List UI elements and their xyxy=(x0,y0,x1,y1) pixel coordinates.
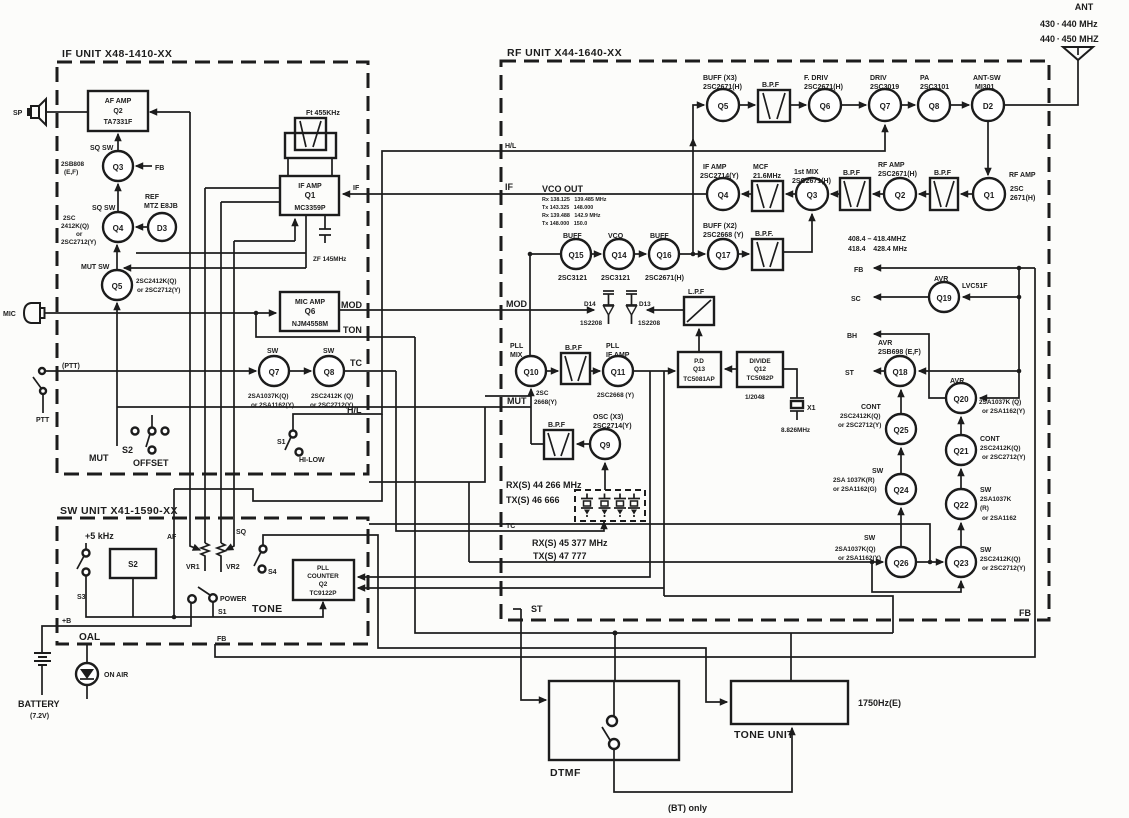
svg-text:2SC: 2SC xyxy=(1010,186,1024,193)
svg-text:OAL: OAL xyxy=(79,632,100,643)
mcf MCF 21.6MHz xyxy=(752,164,783,211)
wire DTMF top feed xyxy=(614,633,616,681)
svg-text:TX(S) 46 666: TX(S) 46 666 xyxy=(506,495,560,505)
svg-text:Q13: Q13 xyxy=(693,366,706,373)
svg-text:BH: BH xyxy=(847,333,857,340)
wire Q5 to Q4 xyxy=(116,245,118,270)
svg-text:SQ SW: SQ SW xyxy=(90,145,114,152)
wire crystal bank to Q9 xyxy=(604,463,606,490)
svg-text:2SB698 (E,F): 2SB698 (E,F) xyxy=(878,349,921,356)
svg-text:PA: PA xyxy=(920,75,929,82)
wire FB into Q3 xyxy=(136,165,164,172)
svg-text:NJM4558M: NJM4558M xyxy=(292,321,328,328)
svg-text:IF AMP: IF AMP xyxy=(703,164,727,171)
bpf B.P.F rx2 xyxy=(840,170,870,210)
sw Q22 xyxy=(946,487,1017,522)
transistor Q3 rf (1st MIX) xyxy=(792,169,831,210)
wire tone unit top riser xyxy=(790,633,792,681)
svg-text:1st MIX: 1st MIX xyxy=(794,169,819,176)
transistor Q8 (SW) xyxy=(310,348,353,409)
wire S3 to rail xyxy=(86,576,131,617)
wire feed rail into Q26 xyxy=(469,561,883,563)
svg-text:Q8: Q8 xyxy=(324,368,335,377)
capacitor quad coil ZF 145MHz xyxy=(313,215,346,263)
IF amp IC Q1 MC3359P box xyxy=(280,176,339,215)
cont Q25 xyxy=(838,404,916,444)
svg-text:2SC3101: 2SC3101 xyxy=(920,84,949,91)
svg-text:Q17: Q17 xyxy=(715,251,731,260)
svg-text:BUFF: BUFF xyxy=(650,233,669,240)
svg-text:P.D: P.D xyxy=(694,358,704,365)
box S2 xyxy=(110,549,156,578)
svg-text:Q5: Q5 xyxy=(112,282,123,291)
svg-text:Q21: Q21 xyxy=(953,447,969,456)
svg-text:TC5082P: TC5082P xyxy=(747,375,775,382)
transistor Q5 (MUT SW) xyxy=(81,264,180,300)
svg-text:Q2: Q2 xyxy=(895,191,906,200)
svg-text:PLL: PLL xyxy=(317,565,329,572)
wire Q15 to Q14 xyxy=(591,253,601,255)
wire Q1 bottom pin via v4 xyxy=(234,240,295,242)
svg-text:Q20: Q20 xyxy=(953,395,969,404)
wire feed rail upper to Q26-Q23 node xyxy=(369,524,930,562)
wire FB bus down to SW unit xyxy=(215,268,1035,657)
wire AF line xyxy=(173,489,175,617)
svg-text:(PTT): (PTT) xyxy=(62,363,80,370)
wire Q23 to Q22 xyxy=(960,523,962,547)
svg-text:Q2: Q2 xyxy=(113,108,122,115)
svg-text:Q3: Q3 xyxy=(113,163,124,172)
svg-text:S1: S1 xyxy=(218,609,227,616)
tone unit box xyxy=(731,681,848,741)
wire TC rail to crystal bank xyxy=(396,371,604,531)
svg-text:2SA1037K: 2SA1037K xyxy=(980,496,1012,503)
svg-text:TONE: TONE xyxy=(252,603,283,615)
svg-text:2SA 1037K(R): 2SA 1037K(R) xyxy=(833,477,875,484)
wire MCF to Q4 xyxy=(742,193,752,195)
svg-text:SW: SW xyxy=(267,348,279,355)
transistor Q14 (VCO) xyxy=(601,233,634,282)
wire +B battery to power switch xyxy=(42,603,191,653)
MIC AMP Q6 box xyxy=(280,292,339,331)
svg-text:ZF 145MHz: ZF 145MHz xyxy=(313,256,346,263)
svg-text:RX(S) 45 377 MHz: RX(S) 45 377 MHz xyxy=(532,538,608,548)
transistor Q9 (OSC X3) xyxy=(590,414,632,459)
svg-text:VR2: VR2 xyxy=(226,564,240,571)
wire IF rail Q4 to IF unit xyxy=(369,193,707,195)
transistor Q11 (PLL IF AMP) xyxy=(597,343,634,399)
wire PLL counter line 2 xyxy=(358,371,664,596)
wire power switch to rail xyxy=(212,602,214,617)
svg-text:Q24: Q24 xyxy=(893,486,909,495)
svg-text:Tx 148.000 150.0: Tx 148.000 150.0 xyxy=(542,221,587,227)
svg-text:BUFF (X2): BUFF (X2) xyxy=(703,223,737,230)
svg-text:L.P.F: L.P.F xyxy=(688,289,705,296)
svg-text:SW: SW xyxy=(323,348,335,355)
switch S1 HI-LOW xyxy=(277,431,325,465)
wire Q1 quad det rail xyxy=(136,252,306,254)
label ST xyxy=(513,604,543,614)
transistor Q2 rf (RF AMP) xyxy=(878,162,917,210)
svg-text:FB: FB xyxy=(217,636,226,643)
svg-text:(BT) only: (BT) only xyxy=(668,803,707,813)
svg-text:2SC2714(Y): 2SC2714(Y) xyxy=(700,173,739,180)
svg-text:ST: ST xyxy=(845,370,855,377)
transistor Q15 (BUFF) xyxy=(558,233,591,282)
svg-text:Q9: Q9 xyxy=(600,441,611,450)
svg-text:2671(H): 2671(H) xyxy=(1010,195,1035,202)
svg-text:VCO: VCO xyxy=(608,233,624,240)
wire AF input from volume line xyxy=(150,111,190,113)
svg-text:LVC51F: LVC51F xyxy=(962,283,988,290)
svg-text:OFFSET: OFFSET xyxy=(133,458,169,468)
svg-text:S3: S3 xyxy=(77,594,86,601)
wire volume wiper from AF AMP xyxy=(190,112,200,550)
svg-text:Q4: Q4 xyxy=(113,224,124,233)
svg-text:or 2SC2712(Y): or 2SC2712(Y) xyxy=(982,565,1025,572)
wire Q18 ST out xyxy=(845,370,885,377)
svg-text:H/L: H/L xyxy=(505,143,517,150)
wire Q25 to Q18 xyxy=(900,390,902,414)
pll counter Q2 TC9122P box xyxy=(293,560,354,600)
wire Q22 to Q21 xyxy=(960,469,962,489)
svg-text:D2: D2 xyxy=(983,102,994,111)
svg-text:DIVIDE: DIVIDE xyxy=(749,358,771,365)
wire Q10 bottom to bpf osc xyxy=(531,389,544,444)
svg-text:2SC: 2SC xyxy=(536,390,549,397)
svg-text:2SC: 2SC xyxy=(63,215,76,222)
wire Q14 to Q16 xyxy=(635,253,646,255)
svg-text:or 2SA1162(G): or 2SA1162(G) xyxy=(833,486,877,493)
wire Q7 to Q8 xyxy=(289,370,311,372)
diode D14 1S2208 xyxy=(580,291,614,327)
svg-text:AVR: AVR xyxy=(934,276,948,283)
svg-text:IF: IF xyxy=(505,182,514,192)
svg-text:Q7: Q7 xyxy=(269,368,280,377)
svg-text:2SC2412K (Q): 2SC2412K (Q) xyxy=(311,393,353,400)
wire Q3 to MCF xyxy=(786,193,796,195)
wire LPF to D13 xyxy=(647,309,684,311)
svg-text:F. DRIV: F. DRIV xyxy=(804,75,828,82)
svg-text:1/2048: 1/2048 xyxy=(745,394,765,401)
svg-text:OSC (X3): OSC (X3) xyxy=(593,414,623,421)
transistor Q3 (SQ SW 2SB808) xyxy=(61,145,133,181)
battery BATTERY 7.2V xyxy=(18,653,60,720)
wire Q15 to PLL mix Q10 xyxy=(530,253,561,255)
svg-text:440 · 450 MHZ: 440 · 450 MHZ xyxy=(1040,34,1099,44)
svg-text:2SC2671(H): 2SC2671(H) xyxy=(878,171,917,178)
svg-text:S1: S1 xyxy=(277,439,286,446)
transistor Q4 rf (IF AMP) xyxy=(700,164,739,210)
sw Q23 xyxy=(946,547,1025,577)
svg-text:MOD: MOD xyxy=(506,299,527,309)
wire Q6 to Q7 xyxy=(841,104,866,106)
svg-text:2SC2412K(Q): 2SC2412K(Q) xyxy=(840,413,881,420)
svg-text:B.P.F: B.P.F xyxy=(548,422,566,429)
wire Q4 to Q3 xyxy=(117,184,119,212)
svg-text:SW: SW xyxy=(980,487,992,494)
svg-text:S2: S2 xyxy=(128,560,138,569)
wire H/L from S1 up and to RF driver xyxy=(293,125,885,430)
label vco frequency range xyxy=(848,236,908,253)
wire MIC to MIC AMP xyxy=(44,312,276,314)
svg-text:1750Hz(E): 1750Hz(E) xyxy=(858,698,901,708)
label RX TX channel B xyxy=(532,538,608,561)
svg-text:DRIV: DRIV xyxy=(870,75,887,82)
svg-text:Q6: Q6 xyxy=(305,307,316,316)
svg-text:or: or xyxy=(76,231,83,238)
svg-text:Q1: Q1 xyxy=(984,191,995,200)
svg-text:Tx 143.325 148.000: Tx 143.325 148.000 xyxy=(542,205,593,211)
wire bpf to Q6 xyxy=(790,104,806,106)
svg-text:2SC2714(Y): 2SC2714(Y) xyxy=(593,423,632,430)
svg-text:2SC3121: 2SC3121 xyxy=(558,275,587,282)
wire Q26 to Q23 xyxy=(916,561,943,563)
wire S4 to tone unit feed xyxy=(263,535,727,702)
antenna ANT xyxy=(1040,2,1099,60)
wire Q1 discriminator down xyxy=(305,215,307,268)
crystal bank dashed box xyxy=(575,490,645,521)
svg-text:Q11: Q11 xyxy=(611,368,626,377)
svg-text:21.6MHz: 21.6MHz xyxy=(753,173,782,180)
svg-text:VR1: VR1 xyxy=(186,564,200,571)
label RX TX channel A xyxy=(506,480,582,505)
svg-text:MCF: MCF xyxy=(753,164,769,171)
svg-text:2SA1037K(Q): 2SA1037K(Q) xyxy=(248,393,289,400)
switch S1 POWER xyxy=(188,587,246,616)
svg-text:or 2SC2712(Y): or 2SC2712(Y) xyxy=(838,422,881,429)
svg-text:MTZ E8JB: MTZ E8JB xyxy=(144,203,178,210)
bpf B.P.F tx1 xyxy=(758,82,790,122)
svg-text:2SC2671(H): 2SC2671(H) xyxy=(792,178,831,185)
svg-text:Q19: Q19 xyxy=(936,294,952,303)
wire DTMF bottom loop to tone unit xyxy=(614,728,792,792)
svg-text:AF: AF xyxy=(167,534,177,541)
bpf B.P.F pll xyxy=(561,345,590,384)
svg-text:MC3359P: MC3359P xyxy=(294,205,325,212)
transistor Q6 rf (F. DRIV) xyxy=(804,75,843,121)
wire Q3 to AF AMP xyxy=(117,134,119,151)
svg-text:ANT-SW: ANT-SW xyxy=(973,75,1001,82)
svg-text:2SC2671(H): 2SC2671(H) xyxy=(645,275,684,282)
svg-text:2SB808: 2SB808 xyxy=(61,161,85,168)
crystal X1 8.826MHz xyxy=(781,369,816,434)
svg-text:2SA1037K (Q): 2SA1037K (Q) xyxy=(979,399,1021,406)
svg-text:2412K(Q): 2412K(Q) xyxy=(61,223,89,230)
wire squelch wiper from Q1 xyxy=(226,241,234,550)
wire TON from mic node to tone rail xyxy=(256,313,415,337)
wire mut branch xyxy=(369,396,531,482)
wire PLL counter line 1 xyxy=(358,371,650,577)
svg-text:S2: S2 xyxy=(122,445,133,455)
wire IF input into Q1 xyxy=(343,185,369,194)
svg-text:TA7331F: TA7331F xyxy=(104,119,133,126)
svg-text:Q3: Q3 xyxy=(807,191,818,200)
svg-text:Q18: Q18 xyxy=(892,368,908,377)
svg-text:TC9122P: TC9122P xyxy=(310,590,338,597)
wire squelch path Q10 top xyxy=(529,253,531,356)
svg-text:Q23: Q23 xyxy=(953,559,969,568)
sw Q26 xyxy=(835,535,916,577)
svg-text:PTT: PTT xyxy=(36,417,50,424)
svg-text:or 2SA1162(Y): or 2SA1162(Y) xyxy=(982,408,1025,415)
svg-text:D14: D14 xyxy=(584,301,596,308)
svg-text:IF UNIT X48-1410-XX: IF UNIT X48-1410-XX xyxy=(62,48,172,60)
switch S2 OFFSET xyxy=(122,415,169,468)
svg-text:REF: REF xyxy=(145,194,160,201)
svg-text:BUFF (X3): BUFF (X3) xyxy=(703,75,737,82)
wire FB arrow out xyxy=(854,266,1035,274)
transistor Q8 rf (PA) xyxy=(918,75,950,121)
wire bpf up to Q3 xyxy=(783,214,812,252)
svg-text:POWER: POWER xyxy=(220,596,246,603)
speaker SP xyxy=(13,99,46,125)
wire Q1 to bpf rx1 xyxy=(961,193,973,195)
svg-text:Q16: Q16 xyxy=(656,251,672,260)
svg-text:RF AMP: RF AMP xyxy=(878,162,905,169)
svg-text:Q1: Q1 xyxy=(305,191,316,200)
svg-text:IF: IF xyxy=(353,185,360,192)
svg-text:Q10: Q10 xyxy=(523,368,539,377)
svg-text:SC: SC xyxy=(851,296,861,303)
svg-text:2SC2671(H): 2SC2671(H) xyxy=(703,84,742,91)
wire ST to DTMF xyxy=(521,609,546,700)
svg-text:Q6: Q6 xyxy=(820,102,831,111)
transistor Q17 (BUFF X2) xyxy=(703,223,743,269)
wire Q19 SC out xyxy=(851,296,929,303)
svg-text:BUFF: BUFF xyxy=(563,233,582,240)
svg-text:SQ: SQ xyxy=(236,529,247,536)
diode D13 1S2208 xyxy=(626,291,660,327)
svg-text:or 2SA1162: or 2SA1162 xyxy=(982,515,1017,522)
svg-text:SP: SP xyxy=(13,110,23,117)
wire Q11 to PD xyxy=(633,370,675,372)
svg-text:Q2: Q2 xyxy=(319,581,328,588)
svg-text:AVR: AVR xyxy=(950,378,964,385)
svg-text:MI301: MI301 xyxy=(975,84,995,91)
svg-text:COUNTER: COUNTER xyxy=(307,573,339,580)
dtmf DTMF box xyxy=(549,681,679,779)
ceramic filter Ft 455KHz xyxy=(285,110,340,158)
svg-text:B.P.F: B.P.F xyxy=(565,345,583,352)
svg-text:FB: FB xyxy=(854,267,863,274)
volume VR1 xyxy=(186,188,209,571)
svg-text:RF AMP: RF AMP xyxy=(1009,172,1036,179)
svg-text:+5 kHz: +5 kHz xyxy=(85,531,114,541)
svg-text:DTMF: DTMF xyxy=(550,767,581,779)
switch inside DTMF xyxy=(602,681,619,760)
svg-text:MUT: MUT xyxy=(89,453,109,463)
svg-text:S4: S4 xyxy=(268,569,277,576)
transistor Q10 (PLL MIX) xyxy=(510,343,557,406)
svg-text:TON: TON xyxy=(343,325,362,335)
svg-text:SW: SW xyxy=(872,468,884,475)
svg-text:430 · 440 MHz: 430 · 440 MHz xyxy=(1040,19,1098,29)
svg-text:IF AMP: IF AMP xyxy=(606,352,630,359)
transistor Q1 rf (RF AMP) xyxy=(973,172,1036,210)
phase det P.D Q13 box xyxy=(678,352,721,387)
wire Q10 to bpf xyxy=(546,370,558,372)
svg-text:or 2SA1162(Y): or 2SA1162(Y) xyxy=(838,555,881,562)
wire bpf to Q11 xyxy=(590,370,600,372)
wire Q21 to Q20 xyxy=(960,417,962,435)
svg-text:TC5081AP: TC5081AP xyxy=(683,376,715,383)
switch S4 TONE xyxy=(252,546,283,616)
wire bpf to Q2 xyxy=(919,193,930,195)
svg-text:or 2SA1162(Y): or 2SA1162(Y) xyxy=(251,402,294,409)
wire from Q1 discr to Q5/Q4 node xyxy=(124,267,306,269)
wire PD to LPF xyxy=(698,329,700,352)
wire vco inject to Q5 xyxy=(692,139,694,254)
svg-text:CONT: CONT xyxy=(980,436,1001,443)
svg-text:MUT SW: MUT SW xyxy=(81,264,110,271)
svg-text:Ft 455KHz: Ft 455KHz xyxy=(306,110,340,117)
svg-text:2SC2412K(Q): 2SC2412K(Q) xyxy=(980,445,1021,452)
wire MOD rail xyxy=(339,309,594,311)
svg-text:FB: FB xyxy=(155,165,164,172)
switch PTT xyxy=(33,363,80,424)
svg-text:8.826MHz: 8.826MHz xyxy=(781,427,810,434)
svg-text:TX(S) 47 777: TX(S) 47 777 xyxy=(533,551,587,561)
wire Q7 to Q8 xyxy=(901,104,915,106)
svg-text:1S2208: 1S2208 xyxy=(580,320,602,327)
avr Q19 LVC51F xyxy=(929,276,988,312)
svg-text:CONT: CONT xyxy=(861,404,882,411)
svg-text:SW: SW xyxy=(980,547,992,554)
wire PTT to Q7 xyxy=(45,370,256,372)
svg-text:B.P.F: B.P.F xyxy=(934,170,952,177)
svg-text:BATTERY: BATTERY xyxy=(18,699,60,709)
sw Q24 xyxy=(833,468,916,504)
wire filter to Q1 xyxy=(288,158,332,176)
vco out table xyxy=(542,197,607,227)
zener D3 (REF MTZ E8JB) xyxy=(144,194,178,241)
transistor Q5 rf (BUFF X3) xyxy=(703,75,742,121)
svg-text:D13: D13 xyxy=(639,301,651,308)
wire into Q18 xyxy=(919,370,1019,372)
svg-text:2SC2668 (Y): 2SC2668 (Y) xyxy=(703,232,743,239)
svg-text:B.P.F.: B.P.F. xyxy=(755,231,773,238)
svg-text:Q26: Q26 xyxy=(893,559,909,568)
svg-text:418.4 428.4 MHz: 418.4 428.4 MHz xyxy=(848,246,908,253)
svg-text:B.P.F: B.P.F xyxy=(762,82,780,89)
wire TON rail down to tone unit top xyxy=(415,337,893,633)
avr Q20 xyxy=(946,378,1025,415)
svg-text:Q5: Q5 xyxy=(718,102,729,111)
wire Q2 to bpf rx2 xyxy=(873,193,884,195)
transistor Q7 (SW) xyxy=(248,348,294,409)
wire D2 down to Q1 xyxy=(987,121,989,175)
bpf B.P.F rx1 xyxy=(930,170,958,210)
wire power rail to PLL counter xyxy=(131,602,323,617)
AF AMP Q2 box xyxy=(88,91,148,131)
svg-text:(R): (R) xyxy=(980,505,989,512)
wire D3 to Q4 xyxy=(136,226,148,228)
svg-text:+B: +B xyxy=(62,618,71,625)
svg-text:Q8: Q8 xyxy=(929,102,940,111)
bpf B.P.F osc xyxy=(544,422,573,459)
svg-text:2SC3019: 2SC3019 xyxy=(870,84,899,91)
wire Q9 to bpf xyxy=(577,443,590,445)
svg-text:TONE UNIT: TONE UNIT xyxy=(734,729,794,741)
wire Q1 pin to squelch line v3 xyxy=(221,201,280,203)
svg-text:SQ SW: SQ SW xyxy=(92,205,116,212)
wire into Q19 xyxy=(963,296,1019,298)
svg-text:Q22: Q22 xyxy=(953,501,969,510)
svg-text:PLL: PLL xyxy=(606,343,620,350)
svg-text:2SA1037K(Q): 2SA1037K(Q) xyxy=(835,546,876,553)
wire MUT vertical below Q5 xyxy=(116,303,118,446)
